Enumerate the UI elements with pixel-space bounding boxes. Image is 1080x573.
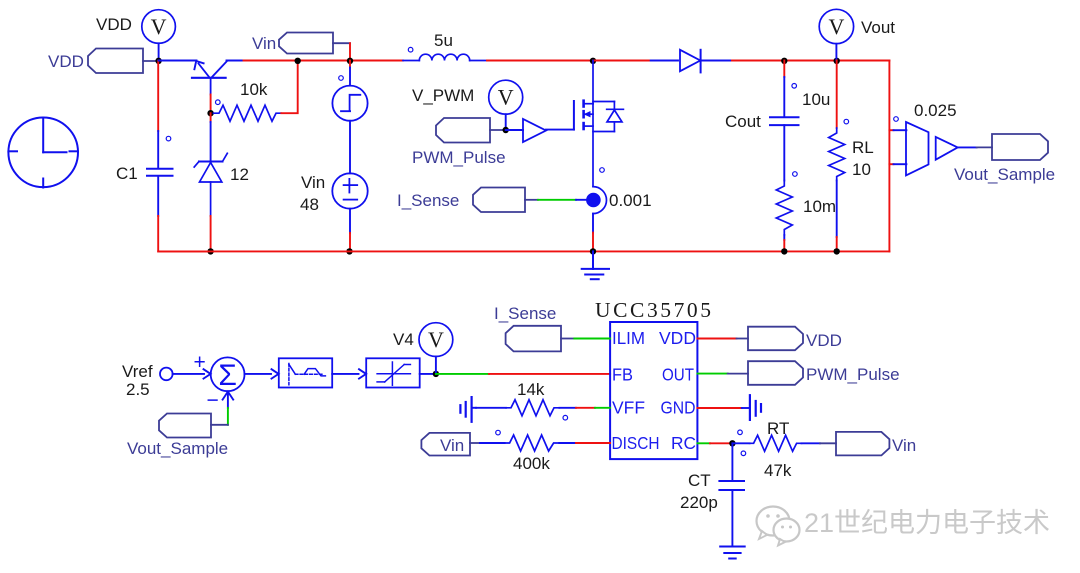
svg-text:Vin: Vin xyxy=(301,173,325,192)
port Vin (bottom right) xyxy=(836,432,889,456)
current sensor 0.001 xyxy=(586,187,606,214)
svg-text:VDD: VDD xyxy=(96,15,132,34)
bottom bus red xyxy=(158,250,889,252)
port Vout_Sample (top right) xyxy=(992,134,1048,160)
probe V_PWM xyxy=(489,80,523,130)
ground (CT) xyxy=(720,547,745,559)
watermark wechat logo xyxy=(757,507,800,546)
wire source to bus xyxy=(349,209,351,233)
wire green vertical xyxy=(227,408,229,425)
capacitor Cout branch xyxy=(783,61,785,78)
svg-text:10k: 10k xyxy=(240,80,268,99)
resistor 10m xyxy=(776,181,792,236)
limiter block xyxy=(366,358,420,387)
port PWM_Pulse (right) xyxy=(748,361,803,385)
port VDD (right) xyxy=(748,327,803,351)
junction 10k top xyxy=(295,58,301,64)
wire 10m to bus xyxy=(783,235,785,240)
svg-text:I_Sense: I_Sense xyxy=(397,191,459,210)
pin marker sensor xyxy=(600,168,605,173)
wire 14k blue xyxy=(559,407,576,409)
wire I_Sense green xyxy=(538,199,576,201)
svg-text:Vout_Sample: Vout_Sample xyxy=(954,165,1055,184)
svg-text:Σ: Σ xyxy=(218,359,237,392)
svg-text:OUT: OUT xyxy=(662,365,694,385)
pin marker RT upper xyxy=(738,430,743,435)
port Vin (bottom left) xyxy=(421,433,480,456)
wire VFF blue xyxy=(476,407,506,409)
resistor RL branch xyxy=(836,61,838,129)
wire Q1 base red xyxy=(210,95,212,114)
ground (top section) xyxy=(582,251,609,279)
wire sampler stub bottom xyxy=(889,163,893,165)
svg-text:UCC35705: UCC35705 xyxy=(595,298,711,322)
capacitor CT xyxy=(719,481,744,490)
wire DISCH red xyxy=(576,442,610,444)
wire OUT stub xyxy=(728,373,748,375)
svg-text:2.5: 2.5 xyxy=(126,380,150,399)
wire zener red lower xyxy=(210,216,212,251)
junction RL bottom xyxy=(834,248,840,254)
arrowhead filter input xyxy=(272,369,279,378)
junction sensor bottom xyxy=(590,248,596,254)
svg-text:V_PWM: V_PWM xyxy=(412,86,474,105)
zener diode 12 xyxy=(194,153,227,216)
pin marker sampler xyxy=(894,117,899,122)
wire between sources xyxy=(349,121,351,174)
mosfet M1 xyxy=(574,61,624,187)
svg-text:RC: RC xyxy=(671,433,696,453)
svg-text:DISCH: DISCH xyxy=(612,433,660,453)
wire zener blue upper xyxy=(210,122,212,162)
wire VDD pin red xyxy=(697,338,736,340)
wire DISCH blue xyxy=(559,442,576,444)
svg-text:Vin: Vin xyxy=(440,436,464,455)
wire VDD stub xyxy=(737,338,749,340)
svg-text:400k: 400k xyxy=(513,454,550,473)
resistor RT xyxy=(750,435,802,451)
analog ground (GND pin) xyxy=(742,395,761,420)
svg-text:FB: FB xyxy=(612,365,633,385)
wire sensor to bus xyxy=(592,214,594,233)
wire left rail blue below C1 xyxy=(157,176,159,216)
transistor Q1 PNP xyxy=(192,61,227,95)
wire sampler stub top xyxy=(889,129,893,131)
svg-text:0.001: 0.001 xyxy=(609,191,652,210)
svg-text:RL: RL xyxy=(852,138,874,157)
pin marker inductor xyxy=(408,47,413,52)
svg-text:47k: 47k xyxy=(764,461,792,480)
probe V4 xyxy=(419,323,453,374)
svg-text:48: 48 xyxy=(300,195,319,214)
svg-text:Vin: Vin xyxy=(252,34,276,53)
wire FB green xyxy=(436,373,489,375)
pin marker pulse xyxy=(339,76,344,81)
capacitor C1 xyxy=(147,169,173,176)
svg-text:21世纪电力电子技术: 21世纪电力电子技术 xyxy=(804,508,1050,538)
svg-text:VDD: VDD xyxy=(48,52,84,71)
wire VFF red xyxy=(576,407,595,409)
wire RC red xyxy=(710,442,732,444)
wire sampler to port xyxy=(958,146,977,148)
wire Vin port blue xyxy=(480,442,505,444)
diode D1 xyxy=(680,50,732,73)
sampler E1 xyxy=(906,122,929,175)
svg-text:Cout: Cout xyxy=(725,112,761,131)
junction source bottom xyxy=(346,248,352,254)
port Vin (top) xyxy=(279,33,350,54)
capacitor Cout xyxy=(770,117,799,125)
svg-text:220p: 220p xyxy=(680,493,718,512)
svg-text:PWM_Pulse: PWM_Pulse xyxy=(412,148,506,167)
junction zener bottom xyxy=(207,248,213,254)
wire OUT green xyxy=(697,373,727,375)
svg-text:VDD: VDD xyxy=(806,331,842,350)
arrowhead summer input xyxy=(204,369,211,378)
port Vout_Sample (bottom) xyxy=(159,414,228,438)
wire top bus blue (emitter) xyxy=(159,60,197,62)
wire zener red upper xyxy=(210,113,212,122)
junction Cout top xyxy=(781,58,787,64)
svg-text:12: 12 xyxy=(230,165,249,184)
wire bus red to mosfet xyxy=(487,60,593,62)
wire VFF green xyxy=(595,407,610,409)
svg-text:V: V xyxy=(828,14,844,39)
wire CT to ground xyxy=(731,490,733,546)
voltage probe Vout xyxy=(819,9,853,60)
dc source V3 xyxy=(332,173,367,208)
svg-text:I_Sense: I_Sense xyxy=(494,304,556,323)
wire I_Sense blue xyxy=(576,199,587,201)
svg-text:VFF: VFF xyxy=(612,398,645,418)
svg-text:10u: 10u xyxy=(802,90,830,109)
wire top bus red xyxy=(244,60,404,62)
wire buffer to gate xyxy=(546,129,574,131)
summer xyxy=(211,357,245,392)
svg-text:0.025: 0.025 xyxy=(914,101,957,120)
pin marker 400k xyxy=(496,430,501,435)
resistor 400k xyxy=(505,435,560,451)
wire FB red xyxy=(489,373,610,375)
wire Vref to summer xyxy=(173,373,204,375)
wire bus red right xyxy=(732,60,889,62)
wire 10k to rail red xyxy=(281,61,297,114)
arrowhead summer bottom xyxy=(223,392,234,408)
svg-text:Vin: Vin xyxy=(892,436,916,455)
pin marker 14k xyxy=(563,415,568,420)
pin marker Cout xyxy=(792,84,797,89)
svg-text:GND: GND xyxy=(661,398,696,418)
resistor 14k xyxy=(506,400,559,416)
port VDD (top-left) xyxy=(88,49,158,74)
junction V4 xyxy=(433,371,439,377)
svg-text:+: + xyxy=(194,351,206,374)
pin marker C1 xyxy=(166,136,171,141)
wire diode anode blue xyxy=(651,60,678,62)
wire GND red xyxy=(697,407,741,409)
pin marker RL xyxy=(844,119,849,124)
svg-text:−: − xyxy=(207,389,219,412)
svg-text:VDD: VDD xyxy=(659,328,696,348)
resistor RL xyxy=(829,128,845,181)
filter block xyxy=(279,358,332,387)
wire CT vertical xyxy=(731,443,733,480)
clock symbol xyxy=(8,118,78,188)
junction VDD xyxy=(155,58,161,64)
resistor 10k xyxy=(214,105,282,121)
svg-text:C1: C1 xyxy=(116,164,138,183)
pin marker 10k xyxy=(216,100,221,105)
buffer (gate drive) xyxy=(523,119,546,142)
svg-text:CT: CT xyxy=(688,471,711,490)
wire RC to RT xyxy=(732,442,749,444)
svg-text:Vout: Vout xyxy=(861,18,895,37)
wire summer to filter xyxy=(245,373,272,375)
pulse source V2 xyxy=(332,86,367,121)
junction Cout bottom xyxy=(781,248,787,254)
wire bus red after junction xyxy=(593,60,651,62)
junction Vin xyxy=(347,58,353,64)
IC U1 UCC35705 xyxy=(610,322,697,459)
wire RL to bus xyxy=(836,181,838,238)
svg-text:V: V xyxy=(498,85,514,110)
svg-text:V: V xyxy=(428,327,444,352)
wire top bus blue after Q1 xyxy=(227,60,244,62)
voltage probe VDD xyxy=(142,10,176,61)
svg-text:14k: 14k xyxy=(517,380,545,399)
wire right rail xyxy=(888,61,890,252)
svg-text:Vout_Sample: Vout_Sample xyxy=(127,439,228,458)
svg-text:5u: 5u xyxy=(434,31,453,50)
junction RL top xyxy=(834,58,840,64)
svg-text:10m: 10m xyxy=(803,197,836,216)
port I_Sense (top) xyxy=(473,188,538,213)
inductor 5u xyxy=(403,54,487,60)
pin marker 10m xyxy=(793,172,798,177)
svg-text:Vref: Vref xyxy=(122,362,153,381)
svg-text:V: V xyxy=(151,14,167,39)
wire Vin port down red xyxy=(349,43,351,60)
svg-text:ILIM: ILIM xyxy=(612,328,645,348)
arrowhead limiter input xyxy=(359,369,366,378)
buffer (sampler) xyxy=(936,137,958,160)
svg-text:RT: RT xyxy=(767,419,789,438)
wire to pulse source xyxy=(349,61,351,68)
wire RT stub xyxy=(820,442,836,444)
wire to buffer xyxy=(506,129,523,131)
terminal Vref xyxy=(160,368,173,381)
port I_Sense (bottom) xyxy=(506,326,575,352)
pin marker RT lower xyxy=(741,451,746,456)
wire Cout to 10m xyxy=(783,125,785,180)
junction mosfet drain xyxy=(590,58,596,64)
junction RC xyxy=(729,440,735,446)
analog ground (VFF) xyxy=(460,397,476,422)
wire left rail red lower xyxy=(158,216,210,251)
svg-text:PWM_Pulse: PWM_Pulse xyxy=(806,365,900,384)
wire RT blue xyxy=(802,442,821,444)
wire left rail red upper xyxy=(157,61,159,131)
port PWM_Pulse (top) xyxy=(436,118,506,143)
svg-text:10: 10 xyxy=(852,160,871,179)
junction PWM xyxy=(503,127,509,133)
wire ILIM green xyxy=(574,338,610,340)
wire limiter to junction xyxy=(420,373,436,375)
wire RC green xyxy=(697,442,710,444)
junction base xyxy=(207,110,213,116)
wire filter to limiter xyxy=(332,373,358,375)
wire left rail blue to C1 xyxy=(157,131,159,168)
svg-text:V4: V4 xyxy=(393,330,414,349)
